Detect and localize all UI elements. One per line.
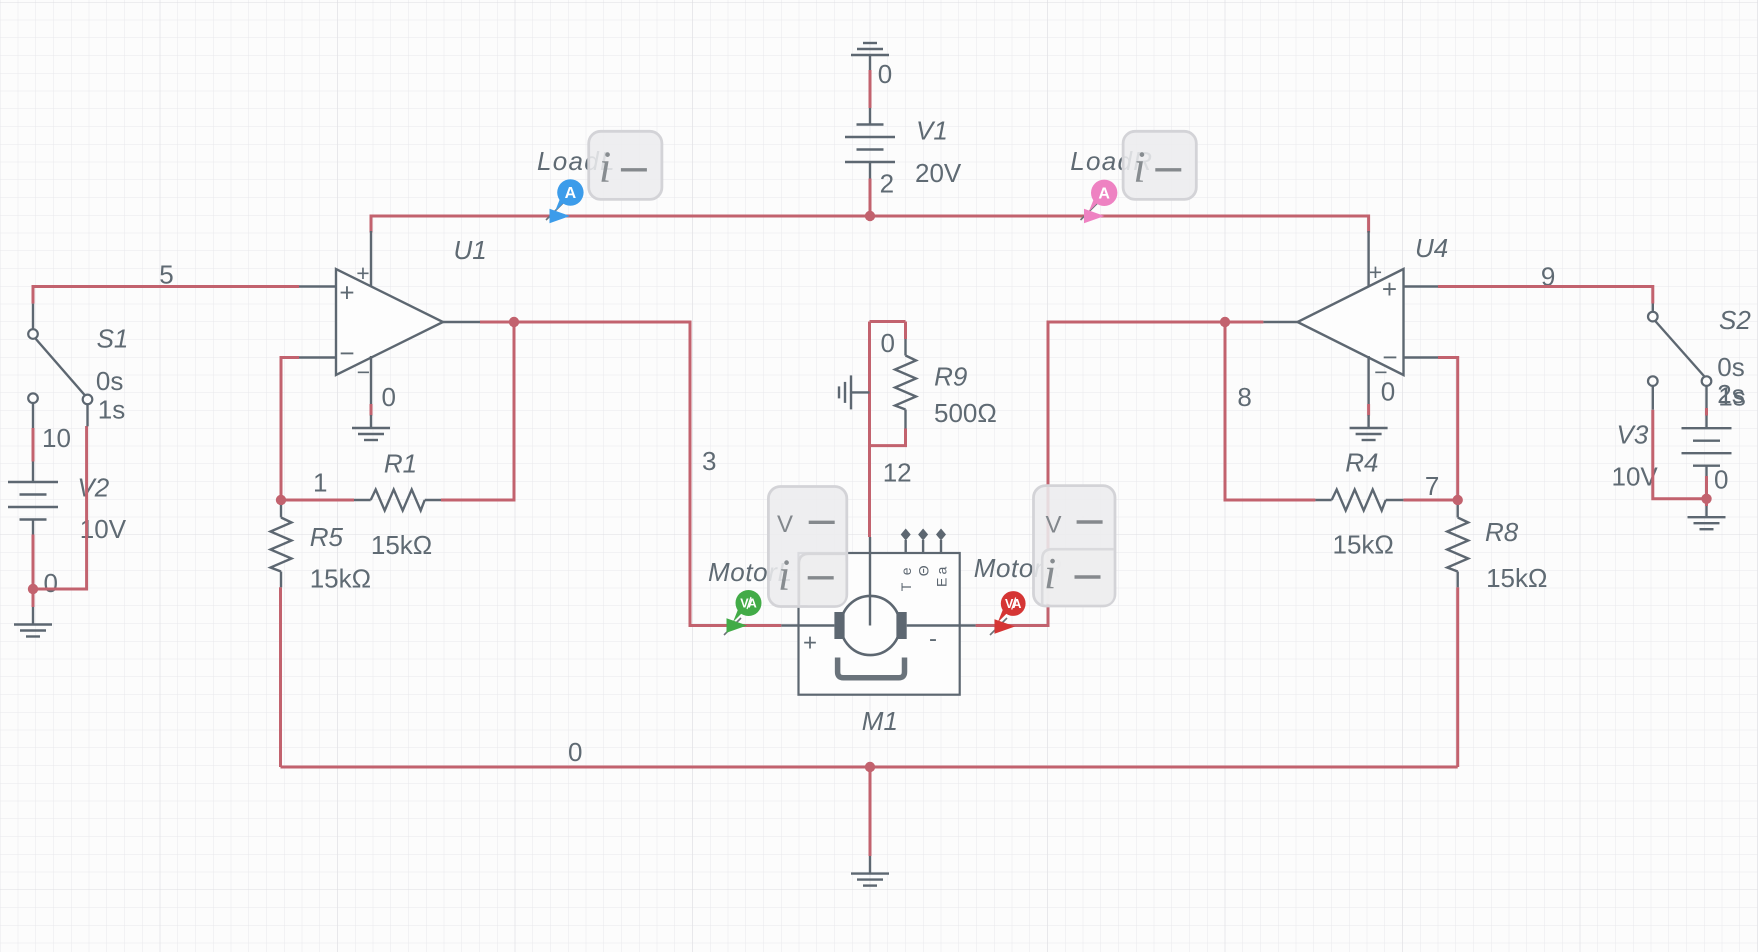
- svg-text:Θ: Θ: [916, 565, 932, 576]
- svg-text:T: T: [898, 582, 914, 591]
- svg-text:15kΩ: 15kΩ: [1486, 563, 1547, 593]
- svg-text:8: 8: [1237, 382, 1251, 412]
- svg-text:R1: R1: [384, 449, 417, 479]
- svg-text:2: 2: [880, 169, 894, 199]
- svg-text:M1: M1: [862, 706, 898, 736]
- svg-text:20V: 20V: [915, 158, 962, 188]
- svg-text:0: 0: [1714, 465, 1728, 495]
- svg-text:+: +: [356, 260, 369, 286]
- svg-text:15kΩ: 15kΩ: [1333, 530, 1394, 560]
- svg-text:10: 10: [42, 423, 71, 453]
- svg-text:i: i: [1133, 143, 1145, 192]
- svg-text:15kΩ: 15kΩ: [371, 530, 432, 560]
- svg-text:1s: 1s: [1718, 382, 1745, 412]
- svg-text:a: a: [934, 567, 950, 575]
- svg-text:0: 0: [878, 59, 892, 89]
- svg-text:−: −: [1374, 359, 1387, 385]
- svg-text:V2: V2: [77, 473, 109, 503]
- svg-text:+: +: [1369, 259, 1382, 285]
- svg-text:i: i: [599, 143, 611, 192]
- svg-text:−: −: [357, 359, 370, 385]
- svg-text:15kΩ: 15kΩ: [310, 564, 371, 594]
- svg-text:1s: 1s: [98, 395, 125, 425]
- svg-text:V: V: [1046, 512, 1062, 539]
- svg-text:0s: 0s: [96, 366, 123, 396]
- svg-text:A: A: [565, 185, 577, 202]
- svg-text:12: 12: [883, 458, 912, 488]
- svg-text:0: 0: [44, 568, 58, 598]
- svg-text:R5: R5: [310, 522, 344, 552]
- svg-text:0: 0: [382, 382, 396, 412]
- svg-text:+: +: [803, 630, 817, 657]
- svg-text:0s: 0s: [1717, 352, 1744, 382]
- svg-text:V: V: [777, 511, 793, 538]
- svg-text:3: 3: [702, 446, 716, 476]
- svg-text:V3: V3: [1617, 419, 1649, 449]
- svg-text:E: E: [934, 578, 950, 587]
- svg-text:V1: V1: [916, 116, 948, 146]
- svg-text:e: e: [898, 567, 914, 575]
- svg-text:0: 0: [568, 737, 582, 767]
- svg-text:R8: R8: [1485, 517, 1519, 547]
- svg-text:A: A: [1098, 185, 1110, 202]
- svg-text:−: −: [339, 338, 354, 368]
- svg-text:U4: U4: [1415, 233, 1448, 263]
- svg-text:+: +: [339, 278, 354, 308]
- svg-text:7: 7: [1425, 471, 1439, 501]
- svg-text:i: i: [1044, 549, 1056, 598]
- svg-text:S2: S2: [1719, 305, 1751, 335]
- svg-text:0: 0: [881, 328, 895, 358]
- svg-text:500Ω: 500Ω: [934, 398, 997, 428]
- svg-text:S1: S1: [97, 324, 129, 354]
- svg-text:R9: R9: [934, 362, 967, 392]
- svg-text:i: i: [778, 551, 790, 600]
- svg-text:1: 1: [313, 468, 327, 498]
- svg-text:U1: U1: [454, 235, 487, 265]
- svg-text:-: -: [929, 626, 937, 653]
- svg-text:+: +: [1382, 274, 1397, 304]
- svg-text:R4: R4: [1345, 448, 1378, 478]
